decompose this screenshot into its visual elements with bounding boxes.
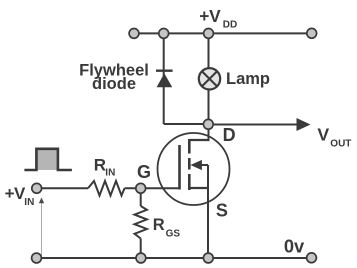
svg-text:R: R <box>94 156 106 175</box>
svg-text:G: G <box>137 162 151 182</box>
svg-text:+V: +V <box>199 6 221 26</box>
svg-text:DD: DD <box>223 20 237 31</box>
svg-text:IN: IN <box>105 168 115 179</box>
svg-text:OUT: OUT <box>330 138 351 149</box>
svg-text:D: D <box>223 125 236 145</box>
svg-text:GS: GS <box>166 228 181 239</box>
svg-text:IN: IN <box>24 197 34 208</box>
svg-text:S: S <box>216 200 228 220</box>
svg-text:Lamp: Lamp <box>226 70 270 88</box>
svg-text:+V: +V <box>5 184 26 203</box>
svg-text:R: R <box>153 216 165 234</box>
svg-text:V: V <box>317 125 329 145</box>
svg-text:0v: 0v <box>284 235 305 256</box>
svg-text:diode: diode <box>92 75 136 93</box>
